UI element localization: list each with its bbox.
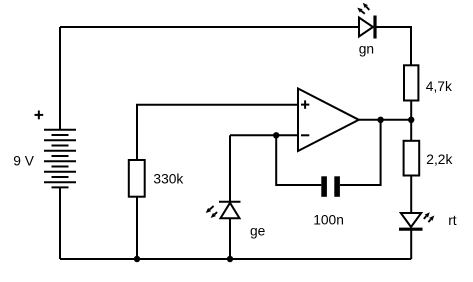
wire op-amp output to divider node [359,119,411,121]
svg-text:rt: rt [448,213,457,228]
wire ge cathode up to inverting net corner [229,135,231,202]
wire battery + terminal up to top rail [59,27,61,130]
svg-text:4,7k: 4,7k [426,79,452,94]
LED D3 ge [206,202,241,218]
wire bottom rail [60,258,411,260]
node divider junction [408,117,414,123]
node ge to rail junction [227,256,233,262]
node 330k to rail junction [134,256,140,262]
svg-text:ge: ge [250,224,266,239]
wire 4,7k bottom to divider node [410,101,412,120]
wire non-inverting input net from 330k top to op-amp [137,105,298,160]
capacitor C1 100n [324,176,337,197]
wire 330k bottom to bottom rail [136,197,138,259]
wire inverting input net from ge to op-amp [230,134,298,136]
wire divider node to resistor 2,2k [410,120,412,141]
resistor R3 330k [129,160,145,197]
svg-text:9 V: 9 V [13,154,35,169]
battery BAT1 9V [44,130,76,188]
op-amp U1 [298,89,359,152]
LED D1 gn [357,3,375,39]
node inverting input junction [273,132,279,138]
wire inverting node down to capacitor left plate [276,135,321,185]
wire top rail from battery to LED gn anode [60,26,359,28]
svg-text:gn: gn [359,42,374,57]
wire LED rt cathode to bottom rail [410,229,412,259]
svg-text:2,2k: 2,2k [426,152,452,167]
resistor R2 2,2k [404,141,420,176]
battery plus polarity mark [35,111,44,120]
LED D2 rt [399,212,434,229]
svg-text:330k: 330k [153,172,183,187]
svg-text:100n: 100n [313,213,344,228]
node op-amp output junction [377,117,383,123]
wire ge anode down to bottom rail [229,218,231,259]
wire battery - terminal down to bottom rail [59,187,61,259]
wire 2,2k bottom to LED rt anode [410,176,412,214]
wire LED gn cathode to resistor 4,7k [375,27,411,65]
wire capacitor right plate to output node [340,120,381,185]
resistor R1 4,7k [404,65,418,100]
